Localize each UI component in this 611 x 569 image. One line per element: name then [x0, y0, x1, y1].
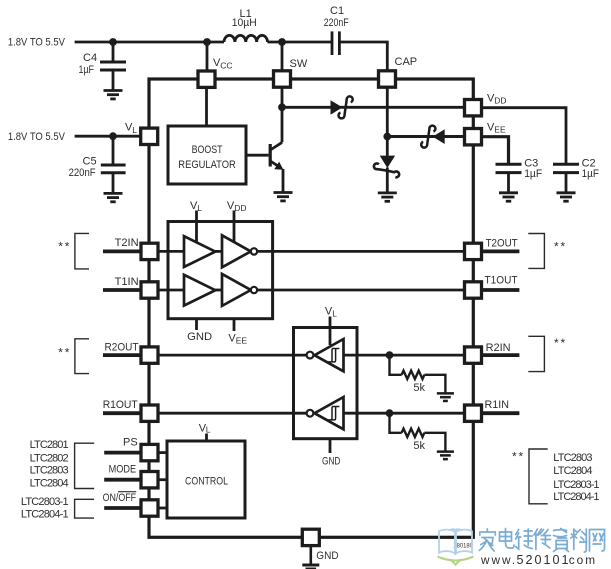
svg-text:**: ** — [554, 239, 567, 253]
svg-text:LTC2804-1: LTC2804-1 — [21, 508, 69, 520]
svg-text:L: L — [197, 203, 202, 213]
svg-text:1µF: 1µF — [79, 64, 95, 76]
svg-text:CONTROL: CONTROL — [185, 476, 228, 488]
svg-text:BOOST: BOOST — [192, 144, 223, 156]
svg-text:**: ** — [58, 239, 71, 253]
svg-text:1µF: 1µF — [524, 168, 542, 180]
svg-text:LTC2803-1: LTC2803-1 — [553, 479, 599, 491]
svg-text:www.: www. — [480, 553, 517, 567]
svg-text:L: L — [206, 425, 211, 435]
svg-text:5k: 5k — [413, 440, 425, 452]
svg-text:EE: EE — [236, 336, 248, 346]
svg-text:CC: CC — [220, 60, 232, 70]
svg-text:GND: GND — [187, 331, 212, 343]
svg-text:**: ** — [512, 450, 525, 464]
svg-text:220nF: 220nF — [69, 167, 96, 179]
svg-text:T2IN: T2IN — [115, 237, 139, 249]
svg-text:10µH: 10µH — [232, 17, 257, 29]
svg-text:MODE: MODE — [109, 463, 137, 475]
svg-text:LTC2803-1: LTC2803-1 — [21, 496, 69, 508]
svg-text:EE: EE — [494, 125, 506, 135]
svg-text:LTC2802: LTC2802 — [30, 452, 69, 464]
svg-text:LTC2801: LTC2801 — [30, 439, 69, 451]
svg-text:R1IN: R1IN — [485, 399, 510, 411]
svg-text:5k: 5k — [413, 382, 425, 394]
svg-text:C4: C4 — [83, 52, 97, 64]
svg-text:C1: C1 — [330, 5, 344, 17]
svg-text:DD: DD — [494, 96, 506, 106]
svg-text:R2IN: R2IN — [486, 342, 511, 354]
svg-text:520101: 520101 — [517, 553, 571, 567]
svg-text:DD: DD — [234, 203, 246, 213]
svg-text:1µF: 1µF — [582, 168, 600, 180]
svg-text:PS: PS — [123, 436, 138, 448]
svg-text:LTC2804-1: LTC2804-1 — [553, 491, 599, 503]
svg-text:GND: GND — [322, 455, 340, 467]
svg-text:T2OUT: T2OUT — [486, 238, 518, 250]
svg-text:1.8V TO 5.5V: 1.8V TO 5.5V — [8, 131, 66, 143]
svg-text:REGULATOR: REGULATOR — [178, 159, 236, 171]
svg-text:T1OUT: T1OUT — [485, 275, 518, 287]
svg-text:CAP: CAP — [395, 56, 418, 68]
svg-text:**: ** — [554, 336, 567, 350]
svg-text:1.8V TO 5.5V: 1.8V TO 5.5V — [8, 36, 66, 48]
svg-text:LTC2804: LTC2804 — [553, 465, 592, 477]
svg-text:LTC2803: LTC2803 — [553, 452, 592, 464]
svg-text:220nF: 220nF — [324, 17, 349, 29]
svg-text:LTC2803: LTC2803 — [30, 465, 69, 477]
svg-text:SW: SW — [290, 58, 308, 70]
svg-text:LTC2804: LTC2804 — [30, 478, 69, 490]
svg-text:GND: GND — [316, 550, 338, 562]
svg-text:L: L — [132, 125, 137, 135]
svg-text:R2OUT: R2OUT — [105, 341, 139, 353]
svg-text:R1OUT: R1OUT — [103, 399, 138, 411]
svg-text:C5: C5 — [83, 155, 97, 167]
svg-text:T1IN: T1IN — [115, 276, 139, 288]
svg-text:.com: .com — [564, 553, 598, 567]
svg-text:L: L — [332, 309, 337, 319]
svg-text:**: ** — [58, 345, 71, 359]
svg-text:ON/OFF: ON/OFF — [103, 492, 137, 504]
